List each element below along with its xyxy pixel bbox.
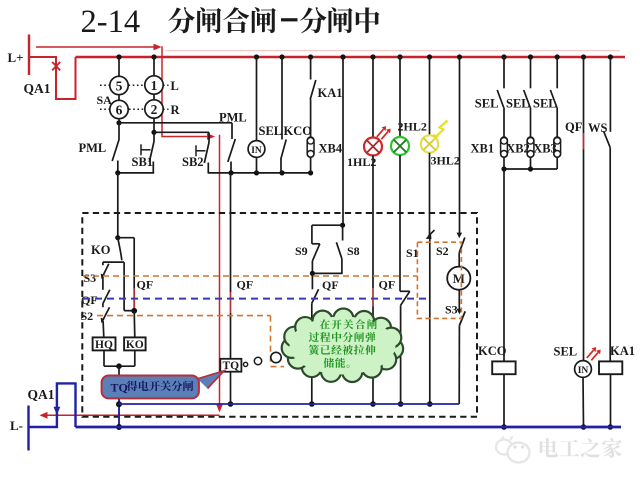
node B [151,130,156,135]
orange link line S2 [97,315,271,317]
changeover S9 S8 [312,224,343,226]
cloud text line 4 [324,358,334,368]
wire KO bypass [123,262,125,311]
breaker QA1 [29,57,76,99]
svg-text:QF: QF [237,278,254,292]
contact QF breaker aux [583,57,585,133]
svg-text:QF: QF [137,278,154,292]
svg-text:PML: PML [79,141,107,155]
svg-text:S3: S3 [84,271,97,285]
contact SEL 3 [556,57,558,88]
node bus XB1 [501,54,506,59]
svg-text:KA1: KA1 [610,344,635,358]
closed contact QF red [583,133,585,150]
wire to coil KO [133,311,136,338]
lamp SEL right [583,150,585,361]
wire rail C right [208,172,311,174]
node G [116,401,122,407]
node bus col5 [116,54,121,59]
node J [340,223,345,228]
link XB4 [307,137,314,157]
svg-text:HQ: HQ [95,339,113,351]
lamp SEL indicator IN [254,54,259,59]
thought bubbles [244,362,248,366]
wire KO chain drop [117,173,119,238]
cloud text line 3 [309,345,319,355]
L+ bus wire [76,56,626,59]
watermark text [540,438,558,457]
svg-text:1HL2: 1HL2 [347,155,376,169]
coil TQ [220,359,241,372]
dashed mechanism box [82,213,477,417]
svg-text:S9: S9 [295,244,308,258]
node bus XB3 [555,54,560,59]
coil KO [124,337,146,350]
svg-text:QF: QF [81,293,98,307]
svg-text:1: 1 [151,78,158,93]
svg-text:XB2: XB2 [506,142,530,156]
wire S3 bracket [103,261,124,263]
lamp 2HL2 [399,57,401,137]
cloud text line 2 [309,332,319,342]
node I [228,401,234,407]
svg-text:R: R [171,103,181,117]
node bus WS [608,54,613,59]
blue link line QF row [83,298,431,300]
svg-text:XB3: XB3 [533,142,557,156]
callout TQ energized [198,371,225,389]
contact KCO [279,54,284,59]
svg-text:S2: S2 [436,244,449,258]
contact S2 motor chain [459,57,461,234]
node rail C1 [115,170,120,175]
title text fen-zha-he-zha [168,7,194,33]
wire to L- bus [118,366,120,388]
svg-text:KCO: KCO [284,124,313,138]
node bus S2 [457,54,462,59]
node bus XB2 [528,54,533,59]
svg-text:5: 5 [116,78,123,93]
node rail C4 [279,170,284,175]
node M2 [370,401,376,407]
contact SEL 1 [503,57,505,88]
svg-text:IN: IN [578,366,589,376]
node bus 2HL2 [397,54,402,59]
title text fen-zha-zhong [300,7,326,33]
wire TQ out [230,372,232,404]
svg-text:SEL: SEL [475,97,499,111]
svg-text:3HL2: 3HL2 [431,154,460,168]
coil KCO [503,169,505,361]
svg-text:TQ: TQ [111,381,128,395]
node K [310,271,315,276]
thin return wire [118,403,459,405]
closed contact QF 1HL2 [372,288,374,306]
node O [427,401,433,407]
node Q2 [581,424,587,430]
lamp 1HL2 [372,57,374,138]
orange link line QF row [83,275,417,277]
svg-text:SB2: SB2 [182,155,204,169]
L+ terminal bar [28,35,30,76]
svg-text:PML: PML [219,111,247,125]
svg-text:L-: L- [10,418,23,433]
svg-text:SEL: SEL [533,97,557,111]
node H [116,424,122,430]
flow arrow top [36,46,154,48]
flow arrow mid [162,136,208,138]
wire XB join rail [504,168,557,170]
svg-text:KCO: KCO [478,344,507,358]
svg-text:2: 2 [151,102,158,117]
svg-text:XB1: XB1 [471,142,495,156]
svg-text:IN: IN [251,146,262,156]
wire S8 drop [342,57,344,225]
lamp 3HL2 [429,57,431,135]
node N [398,401,404,407]
cloud text line 1 [320,319,330,329]
button SB1 [153,132,155,141]
node bus 1HL2 [370,54,375,59]
svg-text:QA1: QA1 [28,387,55,402]
faded underline [166,50,620,52]
svg-text:QF: QF [565,120,583,134]
node E [131,308,137,314]
title dash [281,18,298,21]
wire 1HL2 drop [372,155,374,288]
svg-text:L: L [171,79,179,93]
svg-text:S2: S2 [81,309,94,323]
wire rail C left [118,172,154,174]
node L2 [309,401,315,407]
node rail C2 [228,170,233,175]
node bus S8 [340,54,345,59]
node bus QF [581,54,586,59]
watermark wechat icon [496,437,530,463]
node D [115,235,120,240]
svg-text:SEL: SEL [259,124,283,138]
wire rail A [119,122,232,124]
svg-text:SEL: SEL [554,345,578,359]
svg-text:KO: KO [126,339,144,351]
contact S3 motor chain [458,290,460,310]
svg-text:L+: L+ [8,50,24,65]
flow wire vertical 1 [161,46,163,137]
breaker QA1 bottom [29,383,76,427]
svg-text:QF: QF [322,278,339,292]
link XB3 [554,137,561,157]
thought cloud [282,309,403,383]
wire KO column [118,237,134,239]
svg-text:KA1: KA1 [318,86,343,100]
wire coil join [103,350,105,366]
node rail C5 [308,170,313,175]
svg-text:S8: S8 [347,244,360,258]
node Q1 [501,424,507,430]
node bus 3HL2 [427,54,432,59]
svg-text:SA: SA [97,93,113,107]
wire rail B [154,131,209,133]
node rail C3 [254,170,259,175]
svg-text:M: M [453,271,465,286]
button SB2 [208,132,210,142]
L- bus wire [76,426,622,429]
svg-text:S3: S3 [445,303,458,317]
svg-text:XB4: XB4 [319,142,343,156]
link XB1 [501,137,508,157]
coil HQ [93,337,116,350]
flow arrow bottom [47,414,220,416]
blue flow arrow [54,407,61,415]
selector switch SA [118,57,120,77]
contact SEL 2 [530,57,532,88]
L- terminal bar [27,406,29,451]
svg-text:SB1: SB1 [132,155,154,169]
link XB2 [527,137,534,157]
node F [116,363,122,369]
wire TQ column [230,173,232,292]
contact KA1 [308,54,313,59]
svg-text:6: 6 [116,102,123,117]
node A [116,120,121,125]
flow wire vertical 2 [219,135,221,404]
svg-text:QF: QF [379,278,396,292]
svg-text:QA1: QA1 [24,81,51,96]
node Q3 [608,424,614,430]
orange link box S1 S2 [417,242,461,318]
node bus col1 [151,54,156,59]
svg-text:2HL2: 2HL2 [398,120,427,134]
node P2 [528,166,533,171]
svg-text:2-14: 2-14 [81,4,141,40]
node P1 [501,166,506,171]
svg-text:KO: KO [91,243,111,257]
contact WS [609,57,611,132]
motor M [447,267,470,290]
svg-text:SEL: SEL [506,97,530,111]
